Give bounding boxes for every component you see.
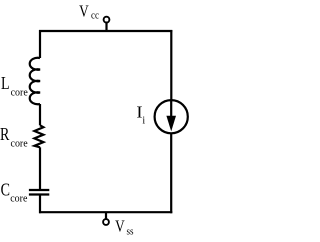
label Rcore main R: [0, 125, 10, 144]
label Rcore subscript core: [11, 138, 29, 149]
capacitor Ccore top plate: [29, 189, 49, 191]
wire resistor to capacitor: [39, 147, 41, 190]
label Vcc main V: [79, 2, 89, 21]
label Vss main V: [115, 217, 125, 236]
wire inductor to resistor: [39, 104, 41, 125]
label Lcore main L: [1, 75, 10, 94]
svg-text:i: i: [142, 116, 145, 127]
svg-text:V: V: [115, 217, 125, 236]
svg-text:R: R: [0, 125, 10, 144]
terminal Vss stub: [105, 212, 107, 219]
label Vcc subscript cc: [91, 11, 99, 22]
terminal Vss circle: [103, 219, 109, 225]
label Ccore subscript core: [10, 193, 28, 204]
label Ii main I: [136, 103, 142, 122]
svg-text:V: V: [79, 2, 89, 21]
inductor Lcore coil: [30, 58, 40, 105]
wire bottom horizontal: [39, 211, 172, 213]
terminal Vcc stub: [105, 23, 107, 31]
wire top horizontal: [39, 30, 172, 32]
svg-text:C: C: [1, 181, 10, 200]
terminal Vcc circle: [104, 17, 110, 23]
svg-text:core: core: [11, 87, 29, 98]
capacitor Ccore bottom plate: [29, 193, 49, 195]
wire right vertical lower: [170, 133, 172, 213]
wire capacitor to bottom corner: [39, 195, 41, 214]
current source arrow shaft: [170, 100, 172, 119]
svg-text:L: L: [1, 75, 10, 94]
svg-text:cc: cc: [91, 11, 99, 22]
label Lcore subscript core: [11, 87, 29, 98]
label Ii subscript i: [142, 116, 145, 127]
svg-text:ss: ss: [126, 227, 133, 238]
current source arrowhead: [166, 116, 176, 132]
wire right vertical upper: [170, 30, 172, 100]
wire left vertical top corner to inductor: [39, 30, 41, 58]
svg-text:core: core: [10, 193, 28, 204]
svg-text:core: core: [11, 138, 29, 149]
label Vss subscript ss: [126, 227, 133, 238]
label Ccore main C: [1, 181, 10, 200]
current source Ii circle: [155, 100, 188, 133]
resistor Rcore zigzag: [34, 125, 43, 147]
